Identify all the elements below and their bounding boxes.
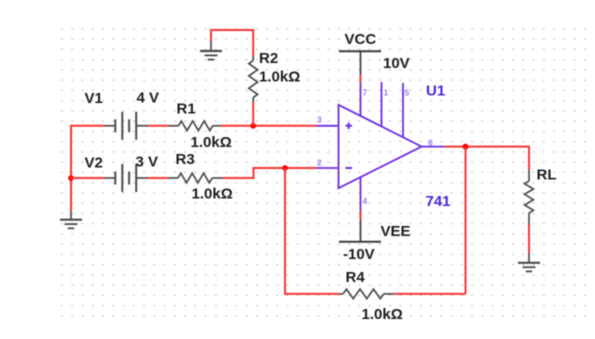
svg-text:1.0kΩ: 1.0kΩ xyxy=(259,69,300,86)
svg-text:VCC: VCC xyxy=(345,31,377,48)
wire R4 to - input node xyxy=(285,168,339,294)
node junction feedback / - input xyxy=(282,165,288,171)
wire feedback vertical down xyxy=(465,147,467,294)
op-amp pin 7 stub (VCC) xyxy=(360,82,362,116)
resistor R3 xyxy=(168,173,223,183)
op-amp U1 triangle xyxy=(339,105,422,188)
op-amp pin 1 stub xyxy=(381,82,383,127)
ground top (R2) xyxy=(210,42,212,52)
ground below left rail xyxy=(70,211,72,220)
svg-text:V2: V2 xyxy=(85,155,103,172)
svg-text:2: 2 xyxy=(317,158,322,168)
svg-text:RL: RL xyxy=(537,167,557,184)
wire R2 top to ground xyxy=(211,30,253,56)
svg-text:1.0kΩ: 1.0kΩ xyxy=(191,134,232,151)
svg-text:R4: R4 xyxy=(346,269,366,286)
node junction R1/R2 xyxy=(250,123,256,129)
svg-text:1.0kΩ: 1.0kΩ xyxy=(192,186,233,203)
svg-text:3: 3 xyxy=(317,115,322,125)
wire row2 to V2 battery xyxy=(70,177,105,179)
wire R3 to step xyxy=(223,168,317,178)
op-amp + symbol xyxy=(346,123,353,129)
op-amp pin 4 stub (VEE) xyxy=(360,177,362,212)
svg-text:10V: 10V xyxy=(383,55,410,72)
wire output to RL xyxy=(445,147,529,170)
wire RL to ground xyxy=(528,225,530,254)
svg-text:R2: R2 xyxy=(259,50,278,67)
ground below RL xyxy=(528,254,530,263)
wire left rail vertical xyxy=(70,126,72,211)
wire R1 to op-amp + input xyxy=(221,125,317,127)
svg-text:741: 741 xyxy=(426,193,451,210)
svg-text:4 V: 4 V xyxy=(137,90,160,107)
svg-text:1.0kΩ: 1.0kΩ xyxy=(362,306,403,323)
wire VCC to pin 7 xyxy=(360,75,362,83)
svg-text:5: 5 xyxy=(405,88,410,98)
svg-text:3 V: 3 V xyxy=(136,154,159,171)
op-amp + input stub pin 3 xyxy=(317,125,339,127)
svg-text:R1: R1 xyxy=(177,101,196,118)
svg-text:6: 6 xyxy=(428,138,433,148)
node junction left rail / V2 xyxy=(68,175,74,181)
wire V1 to R1 xyxy=(148,125,169,127)
svg-text:V1: V1 xyxy=(85,90,103,107)
svg-text:-10V: -10V xyxy=(343,246,375,263)
VEE power symbol xyxy=(360,220,362,241)
resistor R1 xyxy=(169,121,222,131)
node junction output/feedback xyxy=(463,144,469,150)
wire feedback bottom right segment xyxy=(393,293,465,295)
svg-text:1: 1 xyxy=(384,88,389,98)
resistor R4 xyxy=(339,289,393,299)
battery V1 xyxy=(105,112,148,140)
op-amp - input stub pin 2 xyxy=(317,167,339,169)
svg-text:U1: U1 xyxy=(426,83,445,100)
battery V2 xyxy=(105,164,148,192)
op-amp output stub pin 6 xyxy=(422,146,445,148)
op-amp pin 5 stub xyxy=(402,83,404,137)
svg-text:R3: R3 xyxy=(176,151,195,168)
svg-text:VEE: VEE xyxy=(381,223,411,240)
op-amp - symbol xyxy=(346,167,353,169)
VCC power symbol xyxy=(339,50,381,52)
resistor R2 xyxy=(249,56,258,102)
wire row1 to V1 battery xyxy=(70,125,105,127)
wire pin 4 to VEE xyxy=(360,211,362,220)
resistor RL xyxy=(525,170,534,225)
svg-text:7: 7 xyxy=(363,88,368,98)
wire V2 to R3 xyxy=(148,177,169,179)
svg-text:4: 4 xyxy=(363,196,368,206)
wire R2 bottom lead to junction xyxy=(252,102,254,126)
